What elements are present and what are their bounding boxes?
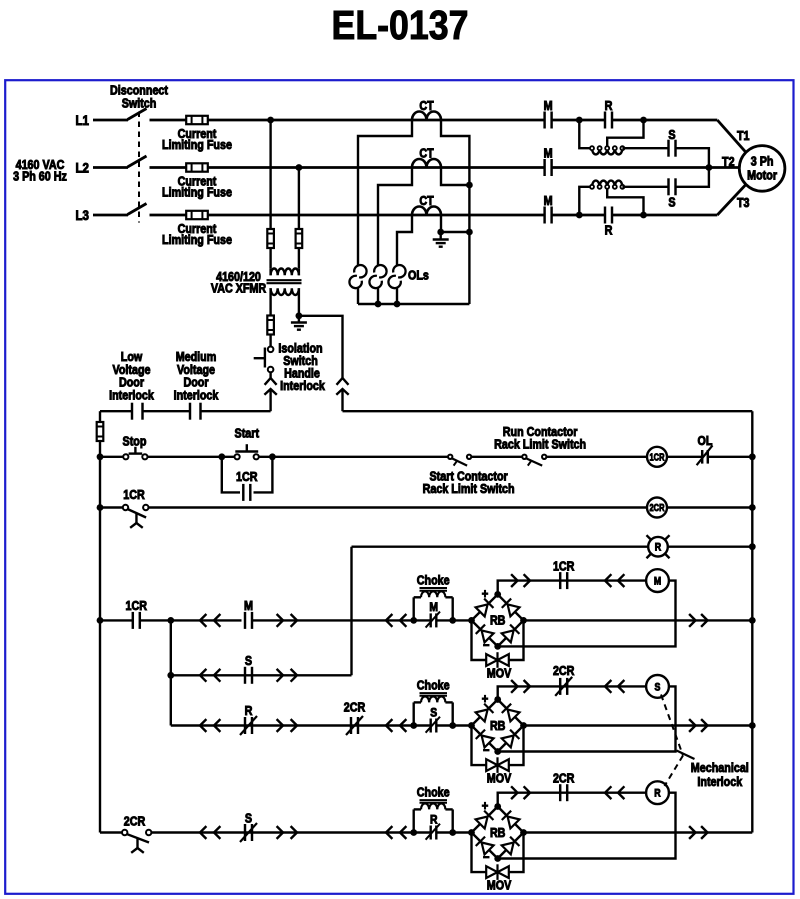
svg-text:Limiting Fuse: Limiting Fuse: [162, 233, 232, 247]
svg-text:L3: L3: [76, 208, 90, 223]
svg-text:M: M: [544, 99, 553, 113]
svg-text:M: M: [654, 576, 661, 588]
svg-text:M: M: [429, 600, 438, 614]
svg-text:1CR: 1CR: [650, 452, 666, 463]
svg-text:Start: Start: [235, 426, 260, 440]
svg-text:R: R: [605, 99, 613, 113]
svg-text:Motor: Motor: [747, 169, 777, 183]
svg-text:M: M: [244, 599, 253, 613]
svg-text:2CR: 2CR: [553, 772, 575, 786]
svg-text:3 Ph: 3 Ph: [751, 155, 774, 169]
svg-text:2CR: 2CR: [553, 664, 575, 678]
svg-text:R: R: [654, 788, 660, 800]
svg-text:Rack Limit Switch: Rack Limit Switch: [494, 438, 586, 452]
svg-text:Interlock: Interlock: [697, 775, 742, 789]
svg-text:+: +: [482, 798, 489, 813]
svg-text:1CR: 1CR: [126, 599, 148, 613]
svg-text:RB: RB: [490, 826, 506, 840]
svg-text:S: S: [668, 196, 675, 210]
svg-text:MOV: MOV: [487, 879, 512, 893]
svg-text:Choke: Choke: [417, 786, 450, 800]
svg-text:M: M: [544, 194, 553, 208]
svg-text:EL-0137: EL-0137: [332, 2, 469, 48]
svg-text:2CR: 2CR: [344, 701, 366, 715]
svg-text:OL: OL: [698, 434, 713, 448]
svg-text:T1: T1: [737, 129, 750, 143]
svg-text:2CR: 2CR: [650, 503, 666, 514]
svg-text:R: R: [605, 224, 613, 238]
svg-text:S: S: [245, 812, 252, 826]
svg-text:CT: CT: [419, 99, 434, 113]
svg-text:Switch: Switch: [122, 97, 157, 111]
svg-text:CT: CT: [419, 194, 434, 208]
svg-text:MOV: MOV: [487, 772, 512, 786]
svg-text:1CR: 1CR: [553, 560, 575, 574]
svg-text:+: +: [482, 691, 489, 706]
svg-text:1CR: 1CR: [123, 488, 145, 502]
svg-text:Choke: Choke: [417, 679, 450, 693]
svg-text:CT: CT: [419, 147, 434, 161]
svg-text:L2: L2: [76, 160, 90, 175]
svg-text:RB: RB: [490, 614, 506, 628]
svg-text:S: S: [655, 681, 661, 693]
svg-text:R: R: [430, 812, 438, 826]
svg-text:−: −: [483, 638, 490, 653]
svg-text:Limiting Fuse: Limiting Fuse: [162, 138, 232, 152]
svg-text:Disconnect: Disconnect: [110, 84, 169, 98]
svg-text:Limiting Fuse: Limiting Fuse: [162, 185, 232, 199]
svg-text:1CR: 1CR: [236, 470, 258, 484]
svg-text:Mechanical: Mechanical: [691, 761, 749, 775]
svg-text:Stop: Stop: [123, 435, 147, 449]
svg-text:T2: T2: [722, 155, 735, 169]
svg-text:MOV: MOV: [487, 667, 512, 681]
svg-text:Choke: Choke: [417, 573, 450, 587]
svg-text:S: S: [668, 128, 675, 142]
svg-text:−: −: [483, 850, 490, 865]
svg-text:Rack Limit Switch: Rack Limit Switch: [423, 482, 515, 496]
svg-text:+: +: [482, 586, 489, 601]
svg-text:R: R: [655, 542, 661, 554]
svg-text:RB: RB: [490, 719, 506, 733]
svg-text:Interlock: Interlock: [109, 388, 154, 402]
svg-text:R: R: [245, 704, 253, 718]
svg-text:M: M: [544, 147, 553, 161]
svg-text:S: S: [245, 654, 252, 668]
svg-text:OLs: OLs: [408, 269, 429, 283]
svg-text:2CR: 2CR: [124, 815, 146, 829]
svg-text:Interlock: Interlock: [280, 379, 325, 393]
svg-text:−: −: [483, 743, 490, 758]
svg-text:VAC XFMR: VAC XFMR: [211, 282, 266, 296]
svg-text:3 Ph 60 Hz: 3 Ph 60 Hz: [13, 170, 67, 184]
svg-text:T3: T3: [737, 196, 750, 210]
svg-text:Interlock: Interlock: [174, 388, 219, 402]
svg-text:L1: L1: [76, 113, 90, 128]
svg-text:S: S: [430, 705, 437, 719]
